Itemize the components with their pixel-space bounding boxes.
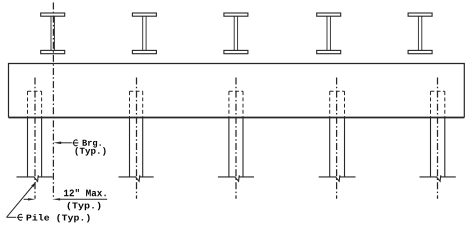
- pier cap bottom edge: [9, 117, 465, 119]
- pile 5 exposed sides below cap: [431, 118, 445, 177]
- pile 2 hidden outline inside cap (dashed): [130, 91, 143, 117]
- girder beam 2 (steel I-beam section): [132, 13, 156, 54]
- leader line with arrowhead pointing to pile 1 centerline at cut-off: [7, 181, 37, 217]
- centerline symbol of Brg label: [74, 140, 78, 146]
- pile 3 centerline (dash-dot): [235, 78, 237, 199]
- pile 2 centerline (dash-dot): [136, 78, 138, 199]
- pier cap (bent cap rectangle): [9, 64, 465, 118]
- pile 3 exposed sides below cap: [229, 118, 243, 177]
- dimension text: 12" Max.: [64, 189, 106, 196]
- label text: Pile (Typ.): [27, 214, 90, 222]
- pile 5 hidden outline inside cap (dashed): [431, 91, 445, 117]
- pile 4 hidden outline inside cap (dashed): [330, 91, 345, 117]
- centerline of bearing: dash-dot vertical through beam 1: [52, 3, 54, 200]
- pile 2 exposed sides below cap: [130, 118, 143, 177]
- girder beam 1 (steel I-beam section): [41, 13, 65, 54]
- girder beam 4 (steel I-beam section): [317, 13, 341, 54]
- dimension text: (Typ.): [68, 202, 101, 210]
- pile 4 exposed sides below cap: [330, 118, 345, 177]
- pile 3 hidden outline inside cap (dashed): [229, 91, 243, 117]
- pile 4 centerline (dash-dot): [336, 78, 338, 199]
- label text: (Typ.) under CL Brg.: [75, 147, 105, 155]
- centerline symbol of Pile label: [18, 214, 22, 220]
- leader arrow pointing left to centerline of bearing: [54, 142, 72, 145]
- pile 3 bottom cut-off line with break zigzag: [218, 175, 254, 181]
- girder beam 3 (steel I-beam section): [224, 13, 248, 54]
- pile 2 bottom cut-off line with break zigzag: [119, 175, 154, 181]
- dimension arrow (points right to pile centerline): [24, 198, 36, 200]
- pile 1 exposed sides below cap: [28, 118, 42, 177]
- pile 5 bottom cut-off line with break zigzag: [420, 175, 456, 181]
- label text: Brg.: [83, 140, 101, 148]
- dimension line + arrow (points left to bearing centerline), underlining text: [53, 198, 107, 200]
- girder beam 5 (steel I-beam section): [408, 13, 432, 54]
- pile 1 centerline (dash-dot): [34, 78, 36, 199]
- pile 1 bottom cut-off line with break zigzag: [17, 175, 53, 181]
- pile 1 hidden outline inside cap (dashed): [28, 91, 42, 117]
- pile 4 bottom cut-off line with break zigzag: [319, 175, 356, 181]
- pile 5 centerline (dash-dot): [437, 78, 439, 199]
